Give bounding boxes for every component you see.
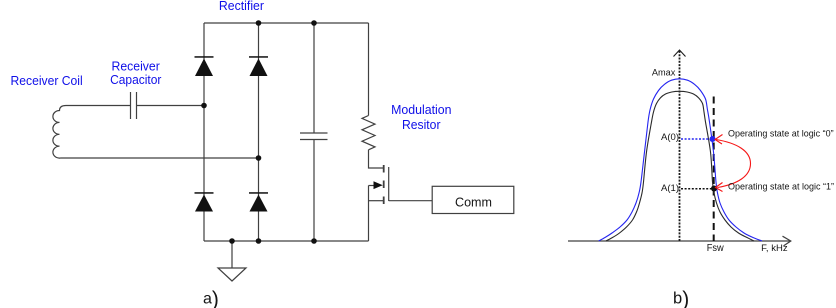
annotation dotted line A(1) [681,188,712,190]
capacitor receiver capacitor [131,92,137,119]
wire bridge right branch vertical [258,23,260,241]
svg-text:Operating state at logic “1”: Operating state at logic “1” [728,182,834,193]
junction node bottom rail ground [229,238,235,244]
annotation dotted line A(0) [681,138,711,140]
svg-text:Fsw: Fsw [707,243,725,254]
wire mosfet source lead [369,200,384,202]
curve blue resonance [599,79,762,241]
wire filter capacitor branch bottom [313,140,315,242]
wire top rail [204,22,369,24]
junction node top rail right branch [256,20,262,26]
node blue operating point logic 0 [710,136,716,142]
wire mosfet source to bottom rail [368,186,370,242]
junction node bottom rail cap branch [311,238,317,244]
svg-text:F, kHz: F, kHz [761,243,788,253]
capacitor filter capacitor plates [300,133,328,140]
wire ground stem [231,241,233,268]
wire coil bottom to bridge right branch [66,157,259,159]
svg-text:b): b) [673,288,689,308]
annotation red transition curve [715,135,751,192]
transistor mosfet body arrow [374,181,383,189]
transistor mosfet channel contacts [383,165,385,204]
junction node top rail cap branch [311,20,317,26]
wire mosfet body lead [369,185,375,187]
svg-text:Resitor: Resitor [402,117,441,132]
wire filter capacitor branch top [313,23,315,133]
svg-text:Operating state at logic “0”: Operating state at logic “0” [728,129,834,140]
svg-text:Rectifier: Rectifier [219,0,265,13]
junction node cap to left branch [201,103,207,109]
chart Fsw dashed line [713,97,715,242]
resistor modulation resistor zigzag [362,116,375,150]
diode D2 upper right [249,56,268,76]
svg-text:Receiver Coil: Receiver Coil [11,73,83,88]
svg-text:Comm: Comm [455,194,492,209]
junction node bottom rail right branch [256,238,262,244]
wire resistor to mosfet drain [369,150,384,168]
diode D4 lower right [249,192,268,211]
wire resistor branch from top rail [368,23,370,116]
wire mosfet gate to comm box [389,200,433,202]
transistor mosfet gate plate [388,167,390,201]
chart center frequency dotted axis with arrow [674,50,686,241]
diode D1 upper left [195,56,214,76]
inductor receiver coil [53,106,131,159]
wire cap to bridge left branch [137,105,205,107]
chart x axis with arrow [568,236,791,246]
wire bottom rail [204,240,369,242]
svg-text:Capacitor: Capacitor [110,72,162,87]
comm box [432,186,514,213]
ground symbol triangle [218,268,246,281]
svg-text:Modulation: Modulation [391,102,451,117]
junction node coil to right branch [256,155,262,161]
svg-text:A(0): A(0) [661,132,679,142]
curve black resonance [606,91,754,241]
svg-text:a): a) [203,288,219,308]
svg-text:Amax: Amax [652,68,676,78]
svg-text:A(1): A(1) [661,183,679,193]
diode D3 lower left [195,192,214,211]
wire bridge left branch vertical [203,23,205,241]
node black operating point logic 1 [711,186,717,192]
